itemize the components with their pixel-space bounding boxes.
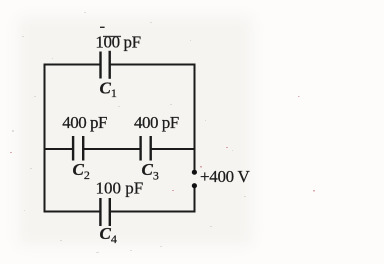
wire: right vertical lower (terminal dot to bottom corner) <box>194 188 196 213</box>
scan speckle texture <box>12 12 246 253</box>
svg-text:100 pF: 100 pF <box>95 32 140 51</box>
stray dash mark above 100 pF <box>100 27 105 28</box>
wire: middle horizontal, C3 to right wire <box>151 148 196 150</box>
svg-text:400 pF: 400 pF <box>62 113 107 132</box>
capacitor C3 plates (middle-right, 400 pF) <box>139 136 152 161</box>
wire: middle horizontal, C2 to C3 <box>83 148 141 150</box>
capacitor C4 plates (bottom, 100 pF) <box>99 198 111 226</box>
wire: bottom-left horizontal segment <box>44 211 101 213</box>
wire: right vertical upper (top corner to +terminal dot) <box>194 64 196 171</box>
svg-text:100 pF: 100 pF <box>96 179 144 198</box>
wire: middle horizontal, left wire to C2 <box>44 148 74 150</box>
svg-text:+400 V: +400 V <box>200 167 251 186</box>
faint overline over "00" of top 100 pF <box>103 36 121 37</box>
node: upper +400V terminal dot <box>192 170 197 175</box>
wire: top-left horizontal segment <box>44 64 101 66</box>
wire: left vertical <box>44 64 46 213</box>
faint pink scan specks <box>10 96 315 192</box>
wire: top-right horizontal segment <box>110 64 196 66</box>
svg-text:400 pF: 400 pF <box>134 113 179 132</box>
capacitor C1 plates (top, 100 pF) <box>99 51 111 79</box>
wire: bottom-right horizontal segment <box>110 211 196 213</box>
capacitor C2 plates (middle-left, 400 pF) <box>72 136 85 161</box>
node: lower +400V terminal dot <box>192 183 197 188</box>
